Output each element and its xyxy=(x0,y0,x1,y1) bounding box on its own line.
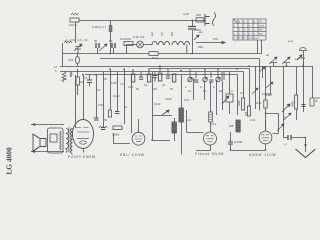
svg-text:a·10: a·10 xyxy=(250,118,256,122)
svg-text:4,100: 4,100 xyxy=(165,97,172,101)
svg-text:#10: #10 xyxy=(196,13,201,17)
svg-text:0,1: 0,1 xyxy=(124,105,128,109)
svg-text:AN5W 110W: AN5W 110W xyxy=(249,153,276,157)
vertical group x237-259 xyxy=(238,59,260,116)
ground lead xyxy=(305,138,307,153)
capacitor C11 xyxy=(209,80,213,82)
wire top bus xyxy=(70,20,205,22)
svg-text:0,1: 0,1 xyxy=(84,76,88,80)
capacitor C2 xyxy=(109,25,113,32)
capacitor C5 xyxy=(96,43,99,48)
wire R8 vertical xyxy=(77,69,79,95)
voice coil resistor xyxy=(60,131,62,150)
svg-text:4999: 4999 xyxy=(237,100,241,106)
svg-text:mod: mod xyxy=(259,25,264,28)
resistor R8 xyxy=(76,77,79,85)
svg-text:104·0: 104·0 xyxy=(69,23,77,27)
arrow left bottom xyxy=(31,150,35,153)
earth symbol xyxy=(296,149,316,158)
arrow left top xyxy=(31,123,35,126)
trimmer arrow C5 xyxy=(99,44,107,51)
antenna a3 umbrella xyxy=(297,48,307,67)
small parts cluster x128-176 xyxy=(133,66,168,77)
wire C7 stub xyxy=(89,75,91,87)
tube V3 xyxy=(204,132,217,145)
resistor R17 xyxy=(62,72,66,82)
wire xyxy=(221,72,223,82)
svg-text:0,110: 0,110 xyxy=(154,102,161,106)
antenna a2 xyxy=(282,57,290,66)
resistor R3 with arrow xyxy=(64,41,72,43)
TA input jack xyxy=(205,14,210,26)
wire C5 down xyxy=(97,48,99,54)
svg-text:A: A xyxy=(231,89,233,93)
vertical drops to V2 xyxy=(97,69,132,133)
tube V4 xyxy=(259,131,272,144)
switch S1b xyxy=(266,82,273,88)
wire transformer riser xyxy=(75,75,77,128)
IF coil L2 xyxy=(181,75,183,155)
wire C3 stub xyxy=(192,21,194,27)
coil L1 xyxy=(152,41,190,45)
svg-text:a+10W: a+10W xyxy=(234,140,243,144)
right side: antenna a1 xyxy=(269,57,277,64)
bus line 4 xyxy=(60,71,244,73)
svg-text:0,1M 2-4,7: 0,1M 2-4,7 xyxy=(92,25,107,29)
svg-text:2M: 2M xyxy=(80,80,84,84)
svg-text:4,1: 4,1 xyxy=(63,77,67,81)
resistor R11 xyxy=(158,73,161,81)
svg-text:0,10: 0,10 xyxy=(184,98,190,102)
svg-text:1 2 1 3 1 7 11 mod: 1 2 1 3 1 7 11 mod xyxy=(234,37,260,40)
wire coil drop xyxy=(186,45,188,54)
resistor R10 xyxy=(147,74,150,82)
capacitor C3 xyxy=(188,27,196,30)
output transformer xyxy=(66,128,73,154)
svg-text:EBL/ CH3W: EBL/ CH3W xyxy=(120,153,145,157)
svg-text:0,110: 0,110 xyxy=(113,94,120,98)
svg-text:0,5M: 0,5M xyxy=(98,103,104,107)
svg-text:101/104: 101/104 xyxy=(120,37,131,41)
svg-text:a 10: a 10 xyxy=(186,118,192,122)
switch S1c xyxy=(284,113,291,120)
wire R3 left drop xyxy=(62,43,64,67)
svg-text:6,3V 0,3: 6,3V 0,3 xyxy=(133,35,145,39)
svg-text:0,1: 0,1 xyxy=(144,83,148,87)
wire tube1 top xyxy=(83,75,85,121)
table tiny text xyxy=(234,21,265,41)
svg-text:Fern: Fern xyxy=(152,56,159,60)
component table xyxy=(233,19,266,40)
switch S1 xyxy=(282,104,290,112)
wire C4 down xyxy=(77,49,79,54)
svg-text:+ (: + ( xyxy=(284,142,287,146)
svg-text:50: 50 xyxy=(109,39,113,43)
capacitor C10 xyxy=(194,80,198,82)
tube V1 (oval) xyxy=(73,120,94,149)
svg-text:4,5: 4,5 xyxy=(97,88,101,92)
svg-text:288: 288 xyxy=(229,124,234,128)
resistor R6 vertical oval xyxy=(76,56,80,63)
resistor R12 xyxy=(241,98,244,110)
bus line 1 xyxy=(62,53,262,55)
coil L4 xyxy=(236,120,240,132)
svg-text:10W: 10W xyxy=(256,101,262,105)
resistor R19 xyxy=(264,100,267,108)
svg-text:3M: 3M xyxy=(153,87,157,91)
svg-text:#99: #99 xyxy=(198,45,203,49)
switch S2 xyxy=(153,110,173,116)
loudspeaker xyxy=(33,134,46,151)
svg-text:0,5M: 0,5M xyxy=(111,81,117,85)
wire V4 bottom xyxy=(255,144,266,151)
resistor R7 xyxy=(70,72,72,77)
trimmer T1 xyxy=(188,77,192,81)
svg-text:12000: 12000 xyxy=(298,56,306,60)
trimmer arrow top xyxy=(252,88,258,94)
svg-text:4,10: 4,10 xyxy=(211,122,217,126)
capacitor C9 xyxy=(166,76,170,78)
resistor R16 xyxy=(113,126,122,130)
svg-text:P2000 EM3W: P2000 EM3W xyxy=(68,155,96,159)
svg-text:4 10: 4 10 xyxy=(183,12,189,16)
resistor R15 xyxy=(109,110,112,117)
wire V3 left xyxy=(187,110,204,133)
trimmer arrow V4 xyxy=(277,124,284,131)
svg-text:270: 270 xyxy=(213,37,218,41)
bus line 5 xyxy=(85,74,238,76)
svg-text:EH: EH xyxy=(150,32,154,36)
svg-text:LG 4000: LG 4000 xyxy=(5,147,14,175)
tiny labels xyxy=(54,12,320,159)
resistor R5 inline xyxy=(149,52,158,56)
svg-text:ab: ab xyxy=(266,53,270,57)
wire P1 xyxy=(229,72,231,114)
svg-text:4.10: 4.10 xyxy=(120,82,126,86)
svg-text:M4: M4 xyxy=(170,32,174,36)
svg-text:0,3: 0,3 xyxy=(240,91,244,95)
capacitor C16 xyxy=(288,135,291,140)
resistor R2 xyxy=(196,18,204,22)
IF coil L2 winding xyxy=(179,108,183,122)
svg-text:→ws: →ws xyxy=(196,30,203,34)
capacitor C14 xyxy=(115,112,119,114)
wire right bus xyxy=(274,63,304,67)
capacitor C6 xyxy=(112,43,115,48)
wire to earth xyxy=(284,137,306,139)
wire lamp drop xyxy=(126,45,128,54)
bus line 2 xyxy=(60,66,313,68)
arrowhead xyxy=(304,144,307,147)
IF coil L3 xyxy=(172,122,176,133)
wire L3 stubs xyxy=(174,118,176,141)
wire lamp to coil xyxy=(126,44,152,46)
wire C15 xyxy=(231,132,256,151)
flexible lead xyxy=(213,12,216,26)
potentiometer P1 xyxy=(222,94,233,104)
wire into V2 xyxy=(114,133,131,144)
arrow to right (AVC) xyxy=(196,41,225,43)
svg-text:10000: 10000 xyxy=(112,133,120,137)
switch S1a xyxy=(259,67,265,72)
wire table drops xyxy=(258,40,262,54)
wire speaker top xyxy=(31,124,64,126)
resistor R21 xyxy=(209,112,213,122)
svg-text:4999: 4999 xyxy=(291,101,295,107)
resistor R4 xyxy=(124,42,133,46)
svg-text:0,1: 0,1 xyxy=(203,89,207,93)
wire verticals right xyxy=(263,67,313,138)
wire V3 bottom xyxy=(196,145,211,151)
resistor R13 xyxy=(247,106,250,116)
wire R1 down xyxy=(75,22,77,43)
wire S2 drop xyxy=(153,72,171,141)
trimmer capacitor C4 xyxy=(74,44,82,51)
wire tube1 bottom xyxy=(83,149,85,153)
magnet xyxy=(50,134,57,142)
wire speaker bottom xyxy=(31,151,64,153)
trimmer cluster x188-224 xyxy=(190,69,224,80)
capacitor C17 xyxy=(153,76,157,78)
tube V2 xyxy=(132,132,145,145)
svg-text:104: 104 xyxy=(68,58,73,62)
capacitor C12 xyxy=(310,98,314,106)
trimmer T2 xyxy=(203,77,207,81)
long verticals to lower section xyxy=(194,78,223,132)
bus line 3 xyxy=(150,68,250,70)
resistor R14 xyxy=(294,95,297,109)
capacitor C15 xyxy=(228,142,233,144)
capacitor C13 xyxy=(94,118,98,120)
wire C6 down xyxy=(113,48,115,54)
resistor R9 xyxy=(131,74,134,82)
chassis title xyxy=(5,147,14,175)
trimmer T3 xyxy=(216,77,220,81)
svg-text:0,1: 0,1 xyxy=(188,89,192,93)
wire vertical x192 xyxy=(192,30,194,54)
wire R19 link xyxy=(266,114,279,134)
svg-text:a–w: a–w xyxy=(288,40,293,43)
capacitor C18 xyxy=(302,105,306,107)
resistor R18 xyxy=(172,74,175,82)
node A xyxy=(192,20,194,22)
capacitor C7 xyxy=(87,80,92,83)
resistor R20 zigzag xyxy=(99,126,107,128)
trimmer arrow xyxy=(194,35,199,40)
svg-text:→2.101 40-(N: →2.101 40-(N xyxy=(62,38,88,42)
svg-text:m: m xyxy=(200,86,202,89)
svg-text:Freund SN3W: Freund SN3W xyxy=(195,152,224,156)
svg-text:445: 445 xyxy=(244,111,248,116)
svg-text:10,2400: 10,2400 xyxy=(262,92,272,96)
svg-text:4,5: 4,5 xyxy=(160,32,164,36)
capacitor C8 xyxy=(139,77,143,79)
resistor R1 xyxy=(70,13,79,22)
svg-text:4.10: 4.10 xyxy=(128,85,134,89)
svg-text:0,1: 0,1 xyxy=(162,83,166,87)
field coil box xyxy=(48,128,64,153)
svg-text:50: 50 xyxy=(94,39,98,43)
wire V4 top xyxy=(265,120,267,131)
dial lamp xyxy=(137,41,144,48)
wire vertical to C2 xyxy=(110,21,112,54)
wire tube2 stub xyxy=(138,119,140,132)
bus line 1b xyxy=(100,58,260,60)
svg-text:AM: AM xyxy=(259,29,263,32)
